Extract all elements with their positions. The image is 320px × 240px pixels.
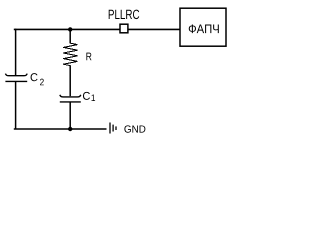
wire left rail lower [15, 81, 17, 129]
label GND [124, 125, 145, 132]
block ФАПЧ (PLL) [180, 8, 226, 46]
wire top horizontal [14, 28, 180, 30]
wire C1 to bottom [69, 102, 71, 130]
wire R to C1 [69, 65, 71, 96]
wire resistor top stub [69, 29, 71, 43]
capacitor C2 [5, 74, 27, 82]
ground symbol [110, 123, 116, 134]
resistor R [63, 43, 77, 65]
label C1 subscript [92, 94, 96, 101]
label C2 [31, 73, 38, 81]
label ФАПЧ [189, 24, 219, 33]
label R [86, 53, 91, 61]
node junction bottom [68, 127, 72, 131]
wire left rail upper [15, 29, 17, 75]
wire bottom horizontal [14, 128, 107, 130]
capacitor C1 [60, 95, 81, 102]
label PLLRC [109, 10, 140, 20]
node junction top [68, 27, 72, 31]
label C2 subscript [40, 79, 44, 86]
label C1 [83, 92, 90, 100]
pin symbol PLLRC square [120, 24, 128, 33]
